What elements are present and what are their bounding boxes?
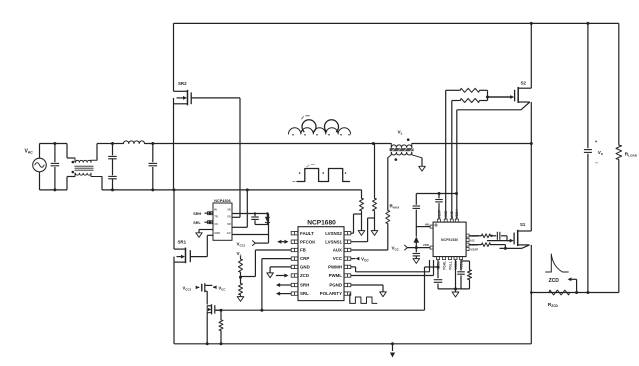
svg-text:PWML: PWML	[329, 273, 343, 278]
svg-text:−: −	[595, 161, 598, 166]
svg-text:IN: IN	[214, 208, 217, 212]
svg-text:S2: S2	[521, 81, 527, 86]
svg-text:SR: SR	[227, 222, 231, 226]
svg-text:HS: HS	[470, 238, 474, 242]
svg-text:GC: GC	[227, 231, 231, 235]
svg-text:SRH: SRH	[300, 283, 309, 288]
svg-text:SRH: SRH	[193, 212, 201, 216]
svg-text:VCC: VCC	[333, 256, 343, 261]
svg-text:S1: S1	[520, 222, 526, 227]
svg-text:FAULT: FAULT	[300, 231, 314, 236]
svg-text:SR2: SR2	[178, 81, 187, 86]
svg-text:VDD: VDD	[423, 243, 430, 247]
svg-text:GND: GND	[214, 231, 220, 235]
svg-text:PGLL: PGLL	[448, 261, 452, 270]
svg-text:+: +	[595, 139, 598, 144]
svg-text:GND: GND	[300, 265, 310, 270]
svg-text:ZCD: ZCD	[549, 278, 560, 284]
svg-text:SRL: SRL	[300, 291, 309, 296]
svg-text:LVSNS1: LVSNS1	[325, 239, 342, 244]
svg-text:ZCD: ZCD	[300, 273, 309, 278]
svg-text:SR1: SR1	[178, 240, 187, 245]
svg-text:CRP: CRP	[300, 256, 309, 261]
svg-text:PGND: PGND	[329, 283, 342, 288]
svg-text:VSSP: VSSP	[470, 247, 478, 251]
svg-text:CS: CS	[214, 222, 218, 226]
svg-text:VD: VD	[227, 215, 231, 219]
svg-text:PWMH: PWMH	[328, 265, 342, 270]
svg-text:VB: VB	[227, 208, 231, 212]
svg-text:TR: TR	[214, 215, 218, 219]
svg-text:NCP51530: NCP51530	[441, 238, 458, 242]
svg-text:NCP1680: NCP1680	[307, 219, 336, 226]
svg-text:AUX: AUX	[333, 248, 342, 253]
svg-text:SRL: SRL	[193, 221, 201, 225]
svg-text:LVSNS2: LVSNS2	[325, 231, 342, 236]
svg-text:PFCOK: PFCOK	[300, 239, 316, 244]
svg-text:PGHL: PGHL	[442, 261, 446, 270]
svg-text:NCP4306: NCP4306	[214, 199, 230, 203]
svg-text:POLARITY: POLARITY	[320, 291, 342, 296]
svg-text:FB: FB	[300, 248, 306, 253]
